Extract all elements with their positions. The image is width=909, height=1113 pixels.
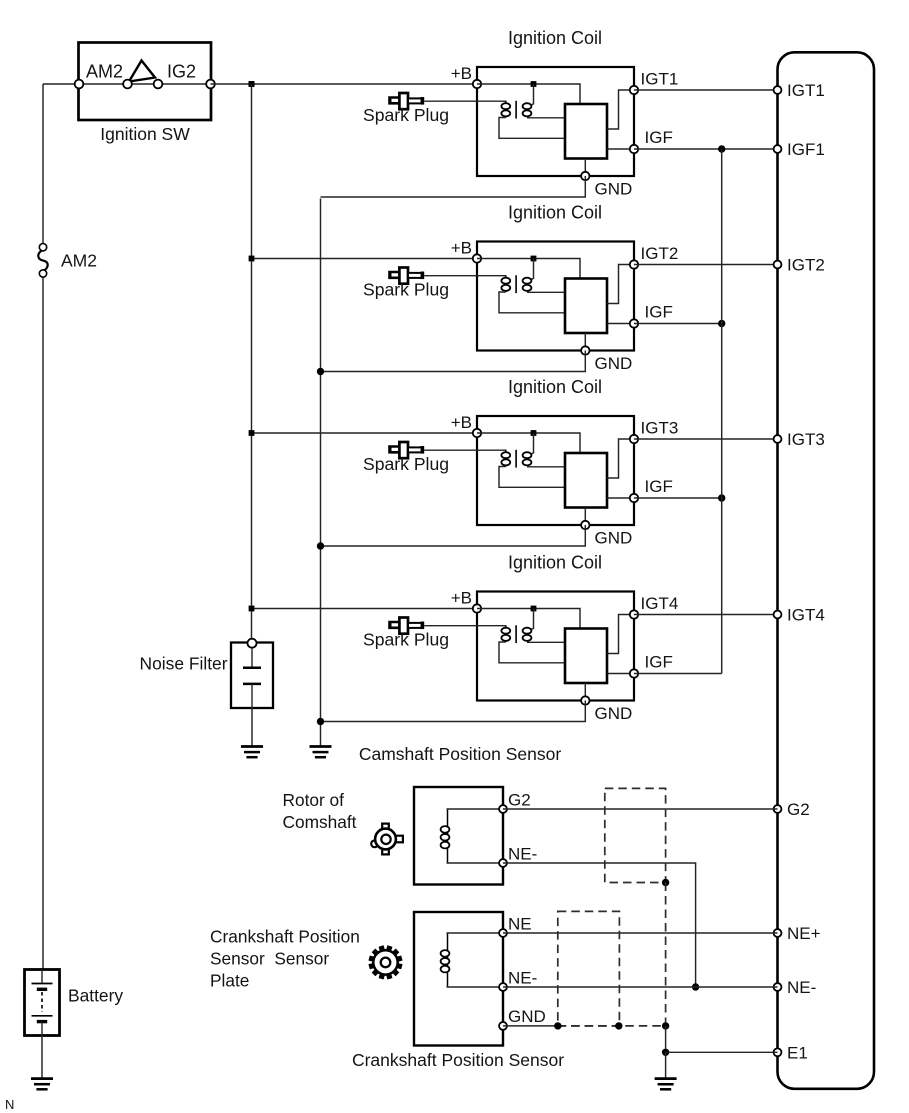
node: shield drain junction left <box>554 1022 561 1029</box>
svg-text:G2: G2 <box>508 791 531 810</box>
node: primary tap junction inside coil 2 <box>531 256 537 262</box>
pickup coil inside camshaft sensor <box>441 809 450 863</box>
wire: primary winding bottom to igniter (coil 3) <box>527 466 565 468</box>
rotor of camshaft icon <box>371 824 403 855</box>
svg-text:Ignition Coil: Ignition Coil <box>508 553 602 573</box>
svg-text:Battery: Battery <box>68 986 123 1006</box>
wire: coil 3 GND to ground bus <box>321 525 586 546</box>
svg-text:E1: E1 <box>787 1043 808 1062</box>
svg-text:Noise Filter: Noise Filter <box>140 654 228 674</box>
node: IGF bus junction for coil 3 <box>718 494 725 501</box>
wire: +B bus to coil 2 +B terminal <box>252 258 478 260</box>
wire: coil 1 GND to ground bus <box>321 176 586 197</box>
wire: battery positive up to ignition switch AM2 (left vertical rail, above fuse) <box>42 84 44 247</box>
node: ground bus junction for coil 3 <box>317 542 324 549</box>
transformer windings of coil 3 <box>501 450 531 467</box>
wire: coil 3 IGF to IGF bus <box>634 497 722 499</box>
wire: primary winding bottom to igniter (coil 2) <box>527 291 565 293</box>
wire: igniter to IGF terminal (coil 1) <box>607 148 634 150</box>
terminal NE- of camshaft sensor <box>499 859 507 867</box>
terminal G2 of camshaft sensor <box>499 805 507 813</box>
node: primary tap junction inside coil 4 <box>531 606 537 612</box>
wire: coil 2 IGF to IGF bus <box>634 323 722 325</box>
svg-text:IG2: IG2 <box>167 62 196 82</box>
igniter module inside coil 1 <box>565 104 607 159</box>
wire: +B bus vertical rail <box>251 84 253 643</box>
wire: primary winding bottom to igniter (coil 1) <box>527 117 565 119</box>
svg-text:+B: +B <box>451 589 472 608</box>
fuse AM2 <box>38 244 47 278</box>
wire: igniter to IGF terminal (coil 3) <box>607 497 634 499</box>
wire: igniter to GND terminal (coil 2) <box>584 333 586 351</box>
svg-text:Ignition Coil: Ignition Coil <box>508 377 602 397</box>
spark plug 2 <box>388 268 424 284</box>
crankshaft sensor plate gear icon <box>369 946 402 979</box>
wire: IG2 to +B supply of coil 1 <box>211 83 478 85</box>
transformer core of coil 3 <box>515 450 517 468</box>
wire: crankshaft coil to NE terminal <box>447 932 504 934</box>
wire: +B internal feed of coil 1 <box>477 84 580 104</box>
svg-text:Comshaft: Comshaft <box>283 812 357 832</box>
wire: tap down to primary winding top (coil 1) <box>531 84 534 105</box>
ground under E1 shield net <box>655 1079 677 1090</box>
svg-text:AM2: AM2 <box>61 251 97 271</box>
wire: tap down to primary winding top (coil 4) <box>531 609 534 630</box>
label Crankshaft Position Sensor Sensor Plate <box>210 927 360 991</box>
terminal IGT2 of coil 2 <box>630 260 638 268</box>
wire: GND bus vertical rail (coil grounds) <box>320 199 322 747</box>
wire: +B internal feed of coil 3 <box>477 433 580 453</box>
terminal +B of coil 4 <box>473 604 481 612</box>
transformer core of coil 4 <box>515 625 517 643</box>
terminal +B of coil 1 <box>473 80 481 88</box>
wire: igniter to GND terminal (coil 4) <box>584 683 586 701</box>
svg-text:GND: GND <box>595 529 633 548</box>
svg-text:IGF: IGF <box>645 128 673 147</box>
wire: coil 4 GND to ground bus <box>321 701 586 722</box>
svg-text:N: N <box>5 1097 14 1112</box>
wire: +B internal feed of coil 2 <box>477 259 580 279</box>
wire: igniter to GND terminal (coil 3) <box>584 508 586 526</box>
terminal GND of coil 4 <box>581 696 589 704</box>
wire: shield drain dashed run <box>558 1025 666 1027</box>
svg-text:IGF: IGF <box>645 477 673 496</box>
wire: camshaft coil to G2 terminal <box>447 808 504 810</box>
wire: igniter to IGT terminal (coil 2) <box>607 265 634 304</box>
terminal +B of coil 2 <box>473 254 481 262</box>
wire: junction to ECU E1 <box>666 1051 778 1053</box>
wire: camshaft shield drain vertical (dashed) <box>665 883 667 1026</box>
wire: shield drain to E1 level <box>665 1026 667 1052</box>
node: shield junction at camshaft shield <box>662 879 669 886</box>
svg-text:NE+: NE+ <box>787 924 821 943</box>
ignition coil 4 case <box>477 592 634 701</box>
transformer windings of coil 2 <box>501 276 531 293</box>
wire: +B bus to coil 4 +B terminal <box>252 608 478 610</box>
transformer windings of coil 4 <box>501 626 531 643</box>
node: IGF bus top junction <box>718 145 725 152</box>
svg-text:IGT2: IGT2 <box>787 256 825 275</box>
wire: battery negative to ground <box>41 1036 43 1079</box>
wire: sensor GND to shield net (solid part) <box>503 1025 558 1027</box>
node: E1 junction <box>662 1049 669 1056</box>
wire: junction down to ground <box>665 1052 667 1078</box>
wire: left vertical rail below fuse to battery <box>42 274 44 970</box>
terminal NE- of crankshaft sensor <box>499 983 507 991</box>
shield around crankshaft signal pair (dashed) <box>558 911 620 1026</box>
svg-text:Spark Plug: Spark Plug <box>363 280 449 300</box>
wire: tap down to primary winding top (coil 2) <box>531 259 534 280</box>
svg-text:Crankshaft Position Sensor: Crankshaft Position Sensor <box>352 1050 564 1070</box>
wire: IGT1 to ECU <box>634 89 778 91</box>
pickup coil inside crankshaft sensor <box>441 933 450 987</box>
crankshaft position sensor box <box>414 912 503 1046</box>
terminal NE+ of ECU <box>774 929 782 937</box>
ground under coil GND bus <box>310 747 332 758</box>
svg-text:Ignition SW: Ignition SW <box>100 124 190 144</box>
svg-text:Spark Plug: Spark Plug <box>363 105 449 125</box>
camshaft position sensor box <box>414 787 503 885</box>
terminal GND of coil 2 <box>581 346 589 354</box>
ground under noise filter <box>241 747 263 758</box>
svg-text:IGT1: IGT1 <box>641 70 679 89</box>
shield around camshaft signal pair (dashed) <box>605 788 666 882</box>
ignition coil 1 case <box>477 67 634 176</box>
node: IGF bus junction for coil 2 <box>718 320 725 327</box>
terminal G2 of ECU <box>774 805 782 813</box>
wire: IGT2 to ECU <box>634 264 778 266</box>
svg-text:IGT4: IGT4 <box>787 606 825 625</box>
terminal IGT2 of ECU <box>774 261 782 269</box>
svg-text:IGF1: IGF1 <box>787 140 825 159</box>
svg-text:GND: GND <box>595 704 633 723</box>
terminal IGF of coil 4 <box>630 669 638 677</box>
wire: camshaft coil to NE- terminal <box>447 862 504 864</box>
transformer core of coil 2 <box>515 275 517 293</box>
battery B1 <box>25 970 60 1036</box>
svg-text:Camshaft Position Sensor: Camshaft Position Sensor <box>359 744 561 764</box>
wire: G2 to ECU <box>503 808 778 810</box>
svg-text:NE: NE <box>508 915 532 934</box>
wire: secondary winding bottom to igniter (coil 3) <box>499 467 565 488</box>
terminal GND of coil 3 <box>581 521 589 529</box>
svg-text:AM2: AM2 <box>86 62 123 82</box>
node: +B bus junction for coil 4 <box>249 606 255 612</box>
wire: secondary winding bottom to igniter (coil 1) <box>499 118 565 139</box>
spark plug 1 <box>388 93 424 109</box>
svg-text:Rotor of: Rotor of <box>283 790 345 810</box>
wire: coil 4 IGF to IGF bus corner <box>634 673 722 675</box>
svg-text:+B: +B <box>451 64 472 83</box>
svg-text:GND: GND <box>595 354 633 373</box>
wire: spark plug 1 to coil secondary <box>424 100 506 102</box>
wire: noise filter to ground <box>251 708 253 746</box>
svg-text:IGF: IGF <box>645 303 673 322</box>
igniter module inside coil 3 <box>565 453 607 508</box>
terminal IGF of coil 2 <box>630 319 638 327</box>
igniter module inside coil 4 <box>565 629 607 684</box>
node: +B bus top junction <box>249 81 255 87</box>
wire: crankshaft NE- to ECU NE- <box>503 986 778 988</box>
node: primary tap junction inside coil 3 <box>531 430 537 436</box>
svg-text:Crankshaft Position: Crankshaft Position <box>210 927 360 947</box>
terminal NE of crankshaft sensor <box>499 929 507 937</box>
svg-text:Ignition Coil: Ignition Coil <box>508 203 602 223</box>
wire: igniter to IGT terminal (coil 3) <box>607 439 634 478</box>
terminal GND of coil 1 <box>581 172 589 180</box>
ground under battery <box>31 1079 53 1090</box>
terminal IGT3 of coil 3 <box>630 435 638 443</box>
ignition coil 3 case <box>477 416 634 525</box>
wire: secondary winding bottom to igniter (coil 4) <box>499 642 565 663</box>
node: NE- net junction <box>692 983 699 990</box>
wire: igniter to IGF terminal (coil 4) <box>607 673 634 675</box>
terminal IGF1 of ECU <box>774 145 782 153</box>
svg-text:GND: GND <box>508 1007 546 1026</box>
ECU engine control module connector <box>778 52 875 1089</box>
terminal IGT1 of coil 1 <box>630 86 638 94</box>
noise filter box <box>231 639 273 708</box>
svg-text:NE-: NE- <box>508 845 537 864</box>
label Rotor of Comshaft <box>283 790 357 832</box>
switch SW1 contacts and blade <box>75 61 215 89</box>
wire: coil 2 GND to ground bus <box>321 351 586 372</box>
wire: secondary winding bottom to igniter (coil 2) <box>499 292 565 313</box>
ignition switch SW1 box <box>79 43 212 121</box>
svg-text:IGF: IGF <box>645 653 673 672</box>
wire: NE to ECU NE+ <box>503 932 778 934</box>
node: shield drain junction middle <box>615 1022 622 1029</box>
terminal IGF of coil 1 <box>630 145 638 153</box>
svg-text:IGT3: IGT3 <box>787 430 825 449</box>
node: primary tap junction inside coil 1 <box>531 81 537 87</box>
svg-text:GND: GND <box>595 180 633 199</box>
igniter module inside coil 2 <box>565 279 607 334</box>
transformer core of coil 1 <box>515 101 517 119</box>
svg-text:IGT1: IGT1 <box>787 81 825 100</box>
wire: switch internal at y=84 <box>79 83 211 85</box>
capacitor inside noise filter <box>243 648 261 708</box>
terminal NE- of ECU <box>774 983 782 991</box>
wire: crankshaft coil to NE- terminal <box>447 986 504 988</box>
svg-text:Plate: Plate <box>210 971 249 991</box>
wire: tap down to primary winding top (coil 3) <box>531 433 534 454</box>
node: +B bus junction for coil 2 <box>249 256 255 262</box>
node: ground bus junction for coil 4 <box>317 718 324 725</box>
wire: coil 1 IGF to ECU IGF1 <box>634 148 778 150</box>
terminal IGT3 of ECU <box>774 435 782 443</box>
wire: spark plug 2 to coil secondary <box>424 275 506 277</box>
terminal E1 of ECU <box>774 1048 782 1056</box>
wire: igniter to GND terminal (coil 1) <box>584 159 586 177</box>
ignition coil 2 case <box>477 242 634 351</box>
wire: igniter to IGT terminal (coil 4) <box>607 615 634 654</box>
wire: AM2 rail to ignition switch box <box>43 83 79 85</box>
svg-text:G2: G2 <box>787 800 810 819</box>
svg-text:IGT4: IGT4 <box>641 594 679 613</box>
terminal IGF of coil 3 <box>630 494 638 502</box>
svg-text:Spark Plug: Spark Plug <box>363 454 449 474</box>
svg-text:NE-: NE- <box>508 969 537 988</box>
terminal GND of crankshaft sensor <box>499 1022 507 1030</box>
wire: IGF bus vertical <box>721 149 723 674</box>
svg-text:IGT3: IGT3 <box>641 419 679 438</box>
svg-text:Ignition Coil: Ignition Coil <box>508 28 602 48</box>
terminal +B of coil 3 <box>473 429 481 437</box>
wire: IGT4 to ECU <box>634 614 778 616</box>
wire: IGT3 to ECU <box>634 438 778 440</box>
spark plug 4 <box>388 618 424 634</box>
svg-text:+B: +B <box>451 239 472 258</box>
svg-text:Sensor Sensor: Sensor Sensor <box>210 949 329 969</box>
wire: igniter to IGF terminal (coil 2) <box>607 323 634 325</box>
node: ground bus junction for coil 2 <box>317 368 324 375</box>
svg-text:+B: +B <box>451 413 472 432</box>
terminal IGT4 of coil 4 <box>630 610 638 618</box>
svg-text:NE-: NE- <box>787 978 816 997</box>
spark plug 3 <box>388 442 424 458</box>
node: shield drain junction right <box>662 1022 669 1029</box>
node: +B bus junction for coil 3 <box>249 430 255 436</box>
wire: +B bus to coil 3 +B terminal <box>252 432 478 434</box>
svg-text:IGT2: IGT2 <box>641 244 679 263</box>
transformer windings of coil 1 <box>501 101 531 118</box>
wire: +B internal feed of coil 4 <box>477 609 580 629</box>
wire: spark plug 4 to coil secondary <box>424 625 506 627</box>
wire: spark plug 3 to coil secondary <box>424 449 506 451</box>
terminal IGT4 of ECU <box>774 611 782 619</box>
wire: camshaft NE- to crank NE- net <box>503 863 696 987</box>
wire: primary winding bottom to igniter (coil 4) <box>527 641 565 643</box>
wire: igniter to IGT terminal (coil 1) <box>607 90 634 129</box>
terminal IGT1 of ECU <box>774 86 782 94</box>
svg-text:Spark Plug: Spark Plug <box>363 630 449 650</box>
